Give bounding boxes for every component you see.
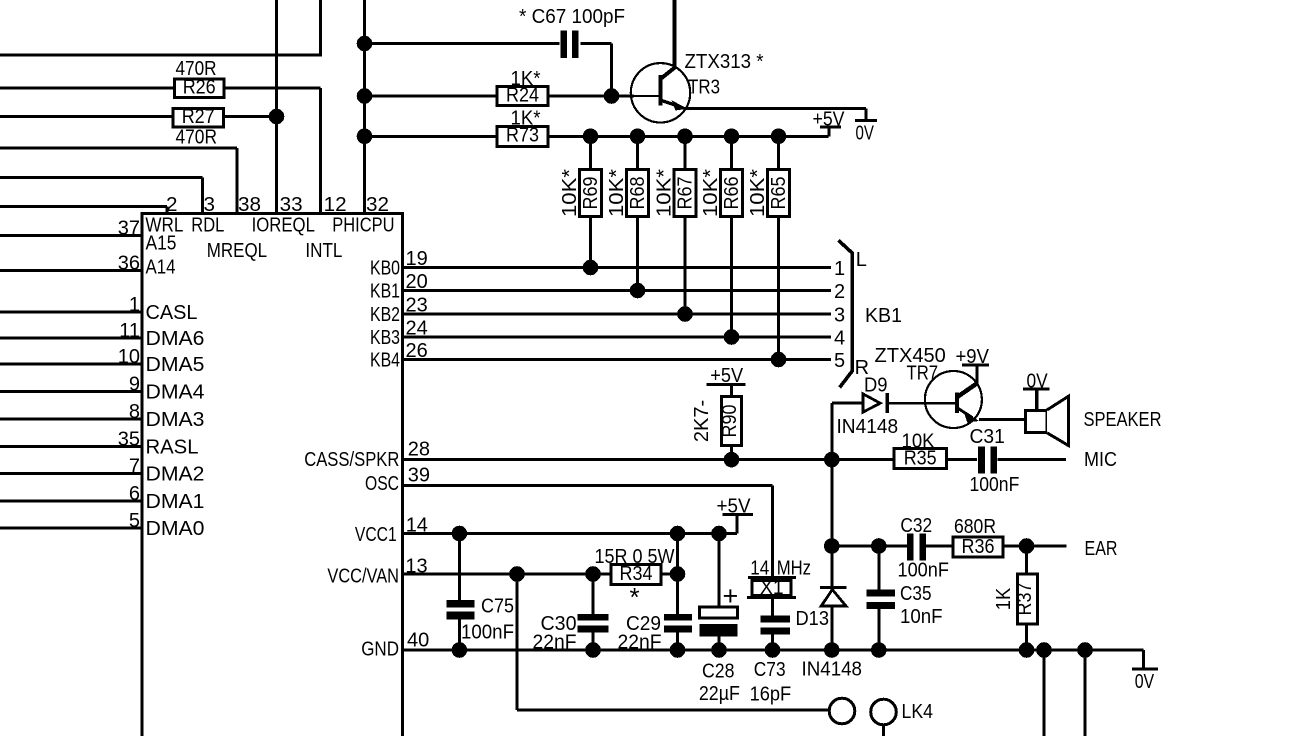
svg-text:0V: 0V [1135,671,1155,693]
svg-text:D9: D9 [864,375,888,397]
wire: R26 left lead from left edge [0,87,175,90]
svg-text:R68: R68 [627,177,649,210]
wire: TR3 emitter to 0V [686,107,866,110]
wire: TR3 collector to top edge [673,0,677,69]
wire KB pin 26 KB4 [403,358,832,361]
svg-text:9: 9 [129,373,140,395]
svg-text:10K*: 10K* [559,169,581,217]
wire KB pin 23 KB2 [403,313,832,316]
IC pin 13 VCC/VAN [403,573,612,576]
svg-text:40: 40 [407,630,429,652]
wire: TR7 emitter to speaker [979,418,1026,421]
svg-text:KB2: KB2 [370,304,400,326]
svg-text:10: 10 [118,346,140,368]
wire: D9 to TR7 base [889,402,958,405]
svg-text:KB1: KB1 [865,305,902,327]
transistor TR3 ZTX313 [631,63,690,122]
junction: R27/pin33 [269,109,285,125]
svg-text:VCC/VAN: VCC/VAN [327,565,399,587]
svg-text:26: 26 [406,340,428,362]
power +5V (R90) [707,383,746,386]
wire: R24 to TR3 base [548,95,634,98]
wire: CASS to D9 branch [830,403,833,650]
svg-text:1K: 1K [993,587,1015,610]
connector KB1 bracket [839,240,853,387]
wire + pin 35 RASL [0,445,142,448]
svg-text:C31: C31 [970,426,1005,448]
svg-text:10K*: 10K* [654,169,676,217]
svg-text:5: 5 [834,350,845,372]
junction: branch/CASS [824,452,840,468]
wire + pin 10 DMA5 [0,363,142,366]
svg-text:LK4: LK4 [902,701,934,723]
junction: pin32/R24 net [357,88,373,104]
wire + pin 11 DMA6 [0,337,142,340]
junction: C73/GND [765,642,781,658]
junction: R67/KB2 [677,306,693,322]
svg-text:100nF: 100nF [461,622,514,644]
wire: R27 to pin 33 line [224,115,277,118]
svg-text:R73: R73 [506,125,539,147]
IC pin 39 OSC [403,484,773,487]
svg-text:C35: C35 [900,583,932,605]
svg-text:0V: 0V [1027,371,1049,393]
svg-text:12: 12 [324,194,347,216]
junction: C28/VCC1 [711,526,727,542]
svg-text:EAR: EAR [1085,538,1118,560]
power +5V (VCC1) [735,515,738,534]
wire: GND drop 1 [1036,642,1052,658]
IC pin 14 VCC1 [403,532,737,535]
svg-text:C32: C32 [900,515,932,537]
svg-text:6: 6 [129,483,140,505]
capacitor C31 100nF [978,446,985,473]
junction: R65/KB4 [771,352,787,368]
resistor R69 10K* pullup [583,129,599,145]
svg-text:KB4: KB4 [370,350,400,372]
junction: LK4 feed/VCC-VAN [509,566,525,582]
wire: vertical into IC pin 2 [166,207,169,214]
svg-text:38: 38 [238,194,261,216]
IC pin 28 CASS/SPKR [403,458,895,461]
wire: R35 to C31 [947,458,978,461]
svg-text:10nF: 10nF [900,606,943,628]
ground 0V (speaker) [1035,389,1038,410]
wire: pin 2 net from left edge [0,205,167,208]
svg-text:L: L [856,249,867,271]
svg-text:0V: 0V [856,123,875,145]
svg-text:DMA5: DMA5 [146,354,205,376]
wire: vertical to top edge at x=320.5 [319,0,322,57]
resistor R73 [365,135,498,138]
svg-text:A14: A14 [146,257,176,279]
svg-text:R27: R27 [182,106,215,128]
svg-text:R35: R35 [904,448,937,470]
wire + pin 37 A15 [0,234,142,237]
svg-text:IOREQL: IOREQL [252,215,315,237]
svg-text:A15: A15 [146,232,177,254]
junction: R68/KB1 [630,283,646,299]
svg-text:KB3: KB3 [370,327,400,349]
junction: C29/VCC1 [670,526,686,542]
junction: C35/EAR [871,538,887,554]
svg-text:SPEAKER: SPEAKER [1084,409,1162,431]
IC pin 40 GND [403,649,1144,652]
wire: R73 to +5V with pullup taps [548,135,829,138]
junction: R66/KB3 [724,329,740,345]
svg-text:CASL: CASL [146,302,198,324]
svg-text:R65: R65 [768,177,790,210]
junction: C30/VCC-VAN [585,566,601,582]
svg-text:8: 8 [129,401,140,423]
junction: D13 branch/EAR [824,538,840,554]
svg-text:C73: C73 [754,659,786,681]
wire + pin 8 DMA3 [0,418,142,421]
svg-text:+5V: +5V [813,109,846,131]
junction: R69/KB0 [583,260,599,276]
ground 0V (bottom right) [1142,650,1145,669]
svg-text:20: 20 [406,271,428,293]
svg-text:DMA0: DMA0 [146,518,205,540]
resistor R37 1K [1025,546,1028,574]
svg-text:KB1: KB1 [370,281,400,303]
svg-text:DMA6: DMA6 [146,328,205,350]
wire: vertical into IC pin 3 [201,178,204,214]
resistor R90 2K7 [721,396,741,445]
diode D13 IN4148 [820,586,847,589]
svg-text:37: 37 [118,217,140,239]
svg-text:C75: C75 [481,596,514,618]
svg-text:DMA2: DMA2 [146,464,205,486]
resistor R68 10K* pullup [630,129,646,145]
svg-text:R69: R69 [580,177,602,210]
crystal X1 14MHz [771,485,774,577]
wire: C32 to R36 [926,545,953,548]
svg-text:16pF: 16pF [750,684,792,706]
svg-text:RASL: RASL [146,437,199,459]
capacitor C32 100nF [907,534,914,561]
link LK4 pads [829,698,855,724]
junction: C28/GND [711,642,727,658]
svg-text:TR3: TR3 [688,77,720,99]
svg-text:3: 3 [204,194,216,216]
junction: C67/R24 [604,88,620,104]
resistor R24 [365,95,498,98]
capacitor C73 16pF [761,616,791,623]
svg-text:DMA4: DMA4 [146,382,205,404]
resistor R26 box [174,79,224,98]
svg-text:2: 2 [834,281,845,303]
wire + pin 6 DMA1 [0,500,142,503]
wire KB pin 20 KB1 [403,289,832,292]
wire KB pin 24 KB3 [403,336,832,339]
svg-text:IN4148: IN4148 [802,659,863,681]
wire: pin 3 net from left edge [0,176,203,179]
wire: to LK4 pin [517,709,830,712]
wire: pin 32 vertical to top edge [363,0,366,214]
svg-text:R66: R66 [721,177,743,210]
svg-text:*: * [629,582,639,612]
svg-text:1: 1 [834,258,845,280]
ground 0V (TR3 emitter) [865,108,868,120]
wire: pin 38 net from left edge [0,147,237,150]
svg-text:28: 28 [408,439,430,461]
junction: pin32/R73 net [357,129,373,145]
svg-text:OSC: OSC [365,473,399,495]
svg-text:19: 19 [406,248,428,270]
svg-text:23: 23 [406,294,428,316]
svg-text:14: 14 [406,515,428,537]
svg-text:22nF: 22nF [533,632,577,654]
wire: R34 to C29 node [661,573,678,576]
svg-text:CASS/SPKR: CASS/SPKR [304,449,399,471]
wire + pin 36 A14 [0,269,142,272]
svg-text:39: 39 [408,465,430,487]
svg-text:R90: R90 [719,405,741,438]
svg-text:C28: C28 [702,661,735,683]
wire + pin 7 DMA2 [0,472,142,475]
speaker symbol [1026,411,1048,433]
diode D9 IN4148 [863,394,880,412]
svg-text:13: 13 [405,555,427,577]
svg-text:IN4148: IN4148 [837,416,899,438]
svg-text:* C67 100pF: * C67 100pF [519,6,625,28]
wire: LK4 pin 2 down [882,725,885,736]
junction: pin32/C67 net [357,36,373,52]
svg-text:GND: GND [361,639,399,661]
capacitor C35 10nF [877,546,880,590]
wire KB pin 19 KB0 [403,266,832,269]
junction: R37/GND [1019,642,1035,658]
resistor R65 10K* pullup [771,129,787,145]
svg-text:100nF: 100nF [970,474,1020,496]
junction: R37/EAR [1019,538,1035,554]
svg-text:5: 5 [129,510,140,532]
svg-text:+9V: +9V [956,346,990,368]
wire: C31 to MIC [998,458,1067,461]
svg-text:2K7-: 2K7- [691,400,713,442]
wire: pin 33 vertical to top edge [275,0,278,214]
svg-text:7: 7 [129,455,140,477]
svg-text:R67: R67 [675,177,697,210]
junction: D13/GND [824,642,840,658]
wire: R26 to pin 12 corner [224,87,321,90]
svg-text:33: 33 [280,194,303,216]
wire: net to top edge (left bus) [0,54,321,57]
svg-text:100nF: 100nF [898,560,949,582]
IC U1 (ULA) body [142,214,403,736]
capacitor C67 [365,42,560,45]
svg-text:MREQL: MREQL [207,240,267,262]
wire + pin 9 DMA4 [0,390,142,393]
svg-text:35: 35 [118,428,140,450]
svg-text:R24: R24 [506,85,539,107]
junction: C29/R34 [670,566,686,582]
svg-text:DMA1: DMA1 [146,491,205,513]
svg-text:2: 2 [166,194,178,216]
junction: C35/GND [871,642,887,658]
wire: TR3 base inside circle [634,95,659,97]
junction: R90/CASS [724,452,740,468]
svg-text:3: 3 [834,305,845,327]
svg-text:+5V: +5V [717,496,752,518]
svg-text:TR7: TR7 [907,363,939,385]
TR3 emitter with arrow [662,101,681,107]
junction: C75/GND [452,642,468,658]
junction: C75/VCC1 [452,526,468,542]
svg-text:VCC1: VCC1 [355,524,397,546]
svg-text:KB0: KB0 [370,258,400,280]
wire + pin 1 CASL [0,311,142,314]
svg-text:X1: X1 [760,577,784,599]
svg-text:4: 4 [834,328,845,350]
resistor R67 10K* pullup [677,129,693,145]
wire: R27 left lead [0,115,174,118]
svg-text:680R: 680R [954,516,996,538]
wire: vertical into IC pin 38 [236,148,239,214]
svg-text:DMA3: DMA3 [146,409,205,431]
wire + pin 5 DMA0 [0,527,142,530]
svg-text:R37: R37 [1014,583,1036,616]
svg-text:24: 24 [406,317,428,339]
svg-text:11: 11 [119,320,140,342]
power +9V (TR7 collector) [976,365,979,384]
svg-text:10K*: 10K* [606,169,628,217]
junction: C29/GND [670,642,686,658]
svg-text:1: 1 [129,294,140,316]
wire: EAR net [832,545,907,548]
transistor TR7 ZTX450 [925,371,982,428]
wire: vertical into IC pin 12 [319,88,322,214]
svg-text:10K*: 10K* [700,169,722,217]
svg-text:RDL: RDL [191,214,224,236]
svg-text:10K*: 10K* [747,169,769,217]
wire: GND drop 2 [1077,642,1093,658]
svg-text:INTL: INTL [305,240,342,262]
svg-text:22nF: 22nF [618,632,662,654]
svg-text:R26: R26 [183,77,216,99]
svg-text:R36: R36 [962,536,995,558]
resistor R27 box [173,109,224,128]
resistor R66 10K* pullup [724,129,740,145]
svg-text:32: 32 [366,194,389,216]
svg-text:MIC: MIC [1084,449,1117,471]
junction: C30/GND [585,642,601,658]
svg-text:PHICPU: PHICPU [332,214,394,236]
svg-text:D13: D13 [796,608,830,630]
svg-text:36: 36 [118,252,140,274]
power +5V (pullups) [828,127,831,136]
svg-text:22µF: 22µF [699,683,740,705]
svg-text:470R: 470R [176,127,218,149]
svg-text:+5V: +5V [710,365,743,387]
svg-text:ZTX313 *: ZTX313 * [685,51,764,73]
wire: R36 to EAR [1003,545,1067,548]
